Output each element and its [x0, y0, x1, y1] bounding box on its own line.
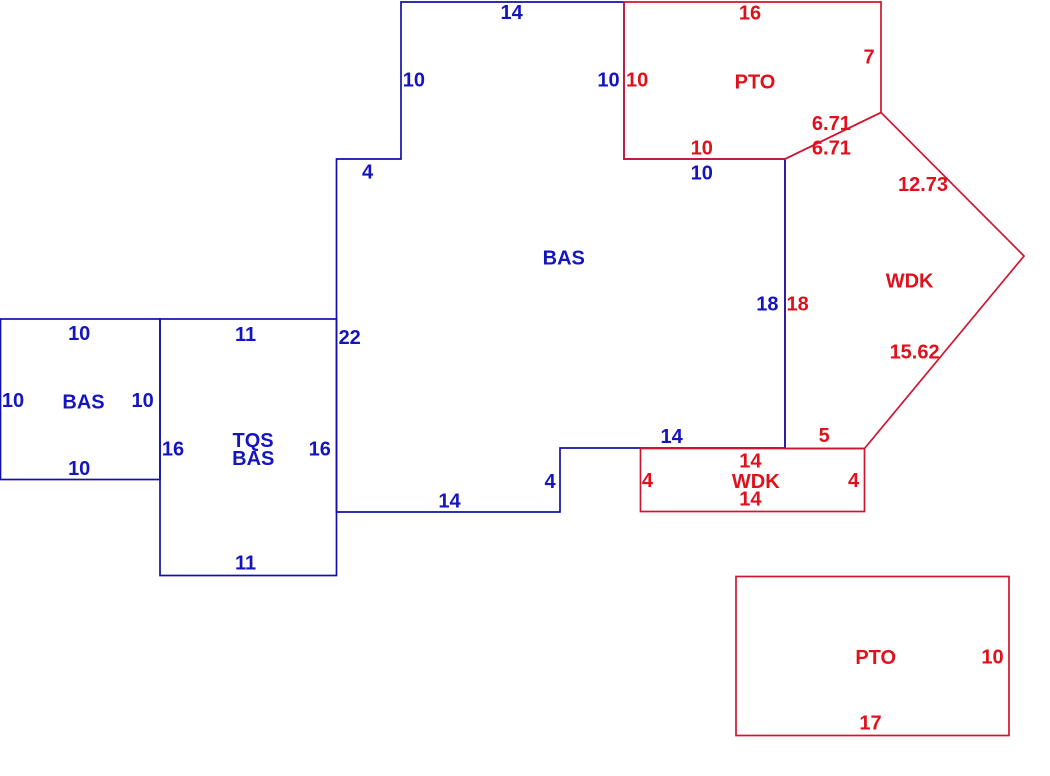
svg-text:15.62: 15.62 — [890, 342, 940, 364]
PTO rectangle (red, bottom right) — [736, 577, 1009, 736]
svg-text:BAS: BAS — [62, 391, 104, 413]
BAS small rectangle (blue, left) — [1, 319, 161, 480]
svg-text:4: 4 — [545, 471, 557, 493]
svg-text:4: 4 — [362, 161, 374, 183]
svg-text:12.73: 12.73 — [898, 174, 948, 196]
svg-text:11: 11 — [235, 324, 256, 346]
svg-text:WDK: WDK — [886, 270, 934, 292]
svg-text:BAS: BAS — [543, 248, 585, 270]
svg-text:17: 17 — [859, 713, 881, 735]
svg-text:16: 16 — [739, 3, 761, 25]
svg-text:10: 10 — [981, 646, 1003, 668]
BAS main area polygon (blue) — [337, 2, 786, 512]
PTO area polygon (red, top right) — [624, 2, 881, 159]
svg-text:16: 16 — [162, 439, 184, 461]
svg-text:18: 18 — [786, 293, 808, 315]
svg-text:14: 14 — [500, 2, 523, 24]
WDK area polygon (red, right side) — [785, 113, 1024, 449]
svg-text:5: 5 — [819, 425, 830, 447]
svg-text:14: 14 — [739, 451, 762, 473]
svg-text:14: 14 — [660, 426, 683, 448]
svg-text:10: 10 — [403, 70, 425, 92]
svg-text:18: 18 — [756, 293, 778, 315]
svg-text:11: 11 — [235, 553, 256, 575]
svg-text:6.71: 6.71 — [812, 113, 851, 135]
svg-text:4: 4 — [848, 470, 860, 492]
svg-text:14: 14 — [438, 491, 461, 513]
svg-text:10: 10 — [2, 390, 24, 412]
svg-text:PTO: PTO — [855, 647, 896, 669]
svg-text:6.71: 6.71 — [812, 138, 851, 160]
TQS BAS rectangle (blue) — [160, 319, 337, 576]
svg-text:16: 16 — [309, 439, 331, 461]
svg-text:10: 10 — [691, 162, 713, 184]
svg-text:10: 10 — [597, 70, 619, 92]
svg-text:10: 10 — [626, 70, 648, 92]
svg-text:4: 4 — [642, 470, 654, 492]
svg-text:10: 10 — [68, 458, 90, 480]
svg-text:7: 7 — [863, 46, 874, 68]
svg-text:BAS: BAS — [232, 448, 274, 470]
svg-text:10: 10 — [131, 390, 153, 412]
svg-text:PTO: PTO — [735, 72, 776, 94]
svg-text:14: 14 — [739, 489, 762, 511]
WDK rectangle (red, bottom middle) — [641, 449, 865, 512]
svg-text:22: 22 — [339, 327, 361, 349]
svg-text:10: 10 — [68, 323, 90, 345]
svg-text:10: 10 — [691, 138, 713, 160]
